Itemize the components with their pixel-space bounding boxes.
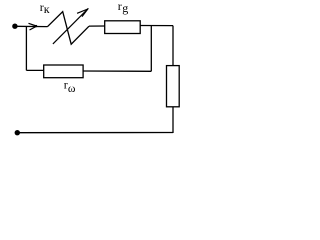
node: top-left input terminal dot <box>12 24 17 29</box>
current direction arrow on top-left wire <box>29 23 37 30</box>
svg-text:g: g <box>122 1 128 15</box>
node: bottom-left terminal dot <box>15 130 20 135</box>
svg-text:ω: ω <box>68 83 76 95</box>
wire: bottom rail <box>17 132 173 134</box>
wire: load resistor bottom to bottom rail <box>172 107 174 133</box>
wire: vertical up from r-omega branch to top wire <box>150 26 152 72</box>
wire: top-left horizontal from terminal to zigzag start <box>15 25 47 27</box>
wire: rg box to top-right corner <box>140 25 173 27</box>
resistor rg (box) <box>105 21 141 34</box>
resistor r-omega (box) <box>44 65 83 78</box>
wire: r-omega branch right lead <box>83 70 151 72</box>
wire: right vertical, corner down to load resistor top <box>172 26 174 66</box>
svg-text:r: r <box>118 0 122 13</box>
arrow across rk (variable) <box>53 8 89 44</box>
resistor: right vertical box (load) <box>167 66 180 107</box>
wire: r-omega branch left lead <box>26 69 43 71</box>
wire: left vertical from top node down to r-omega branch <box>25 26 27 70</box>
svg-text:к: к <box>44 2 50 16</box>
resistor rk (nonlinear, zigzag) <box>47 12 89 45</box>
wire: zigzag end to rg box <box>89 25 105 27</box>
